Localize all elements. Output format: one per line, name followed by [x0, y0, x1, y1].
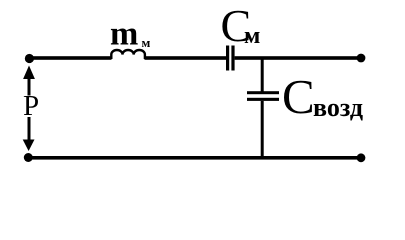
svg-text:C: C — [282, 69, 315, 124]
svg-text:P: P — [23, 90, 39, 122]
svg-text:m: m — [110, 16, 138, 53]
svg-text:м: м — [142, 35, 151, 50]
svg-text:возд: возд — [313, 93, 363, 122]
svg-text:м: м — [244, 23, 260, 49]
